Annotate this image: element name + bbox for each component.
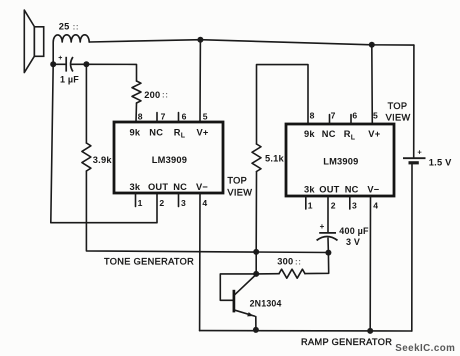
- wire pin4 U1 to ground rail: [199, 193, 201, 331]
- node B mid rail C2: [325, 250, 331, 256]
- svg-text:LM3909: LM3909: [323, 157, 358, 167]
- node emitter ground rail: [253, 327, 259, 333]
- node junction C1 R1 R2: [83, 61, 89, 67]
- capacitor C2 400uF: [317, 222, 338, 241]
- node top rail pin5 U1: [197, 37, 203, 43]
- wire speaker line to pin2 U1: [51, 64, 157, 222]
- svg-text:3k: 3k: [304, 185, 315, 195]
- IC U1 LM3909: [114, 111, 223, 208]
- svg-text:RL: RL: [174, 128, 186, 140]
- transistor Q1 2N1304: [234, 274, 256, 316]
- svg-text:400 µF: 400 µF: [339, 226, 369, 236]
- resistor R2: [82, 143, 91, 171]
- capacitor C1 1uF: [53, 55, 86, 72]
- svg-text:V+: V+: [197, 128, 209, 138]
- svg-text:9k: 9k: [130, 128, 141, 138]
- svg-text:V−: V−: [196, 182, 208, 192]
- node pin4 U2 ground rail: [367, 328, 373, 334]
- svg-text:SeekIC.com: SeekIC.com: [395, 343, 455, 354]
- svg-text:7: 7: [331, 111, 336, 121]
- wire R3 bottom to node A: [255, 172, 257, 252]
- svg-text:8: 8: [138, 111, 143, 121]
- node top rail pin5 U2: [369, 42, 375, 48]
- IC U2 LM3909: [286, 111, 394, 211]
- svg-text:1 µF: 1 µF: [60, 74, 79, 84]
- label TOP VIEW U2: [386, 101, 411, 123]
- svg-text:OUT: OUT: [148, 182, 168, 192]
- svg-text:VIEW: VIEW: [227, 188, 252, 198]
- svg-text:5: 5: [373, 111, 378, 121]
- svg-text:+: +: [417, 147, 422, 156]
- wire R1 to pin8 U1: [135, 103, 138, 122]
- wire R3 top to pin8 U2: [257, 65, 309, 144]
- wire pin2 U2 to C2: [327, 196, 329, 233]
- svg-text:5: 5: [203, 111, 208, 121]
- svg-text:::: ::: [295, 257, 302, 266]
- svg-text:+: +: [58, 55, 62, 62]
- svg-text:3: 3: [181, 198, 186, 208]
- svg-text:::: ::: [162, 91, 169, 100]
- svg-text:3k: 3k: [130, 182, 141, 192]
- svg-text:1.5 V: 1.5 V: [429, 158, 452, 168]
- label R1 value 200 ohms: [144, 90, 168, 100]
- wire node T to base Q1: [220, 274, 256, 300]
- node A mid rail R3: [253, 249, 259, 255]
- label C2 value 400 uF 3 V: [339, 226, 369, 247]
- svg-text:6: 6: [182, 111, 187, 121]
- svg-text:4: 4: [202, 198, 207, 208]
- svg-text:25: 25: [59, 22, 70, 32]
- svg-text:2N1304: 2N1304: [250, 298, 282, 308]
- svg-text:NC: NC: [345, 185, 359, 195]
- battery BT1 1.5V: [403, 147, 426, 162]
- wire R4 to node T: [256, 273, 279, 275]
- svg-text:NC: NC: [322, 129, 336, 139]
- svg-text:2: 2: [331, 200, 336, 210]
- wire pin4 U2 to ground rail: [369, 196, 371, 331]
- label TOP VIEW U1: [227, 175, 252, 197]
- node junction L1 C1 speaker line: [50, 61, 56, 67]
- svg-text:200: 200: [144, 90, 160, 100]
- wire top rail: [89, 40, 414, 45]
- svg-text:5.1k: 5.1k: [265, 154, 285, 164]
- svg-text:TOP: TOP: [388, 101, 408, 111]
- svg-text:1: 1: [308, 200, 313, 210]
- wire emitter Q1 to ground rail: [255, 317, 257, 330]
- wire C2 to node B: [327, 238, 329, 252]
- svg-text:3 V: 3 V: [346, 237, 360, 247]
- resistor R4: [279, 269, 305, 278]
- svg-text:NC: NC: [149, 128, 163, 138]
- wire pin5 U2 to top rail: [371, 45, 374, 124]
- svg-text:+: +: [320, 222, 325, 231]
- wire node A to node T: [255, 252, 257, 274]
- wire ground rail: [200, 330, 412, 332]
- svg-text:OUT: OUT: [319, 185, 339, 195]
- svg-text:1: 1: [138, 198, 143, 208]
- svg-text:V−: V−: [367, 185, 379, 195]
- svg-text:NC: NC: [173, 182, 187, 192]
- svg-text:RAMP GENERATOR: RAMP GENERATOR: [301, 337, 392, 347]
- wire R2 to mid rail: [86, 171, 328, 253]
- svg-text:::: ::: [73, 22, 80, 31]
- svg-text:RL: RL: [344, 129, 356, 141]
- svg-text:8: 8: [310, 111, 315, 121]
- wire node B to R4: [305, 253, 329, 274]
- resistor R1: [132, 81, 141, 103]
- svg-text:7: 7: [161, 111, 166, 121]
- resistor R3 5.1k: [252, 144, 261, 172]
- svg-text:6: 6: [352, 111, 357, 121]
- wire pin5 U1 to top rail: [199, 40, 201, 122]
- svg-text:TOP: TOP: [227, 175, 247, 185]
- svg-text:9k: 9k: [304, 129, 315, 139]
- svg-text:4: 4: [373, 200, 378, 210]
- svg-text:2: 2: [159, 198, 164, 208]
- wire C1 junction to R2: [85, 64, 87, 143]
- svg-text:3.9k: 3.9k: [93, 155, 113, 165]
- svg-text:VIEW: VIEW: [386, 113, 411, 123]
- node T collector node: [253, 271, 259, 277]
- svg-text:3: 3: [352, 200, 357, 210]
- svg-text:LM3909: LM3909: [152, 155, 187, 165]
- svg-text:V+: V+: [368, 129, 380, 139]
- speaker LS1: [24, 10, 43, 73]
- label L1 value 25 ohms: [59, 22, 79, 32]
- svg-text:TONE GENERATOR: TONE GENERATOR: [104, 257, 194, 267]
- wire battery negative lead: [411, 165, 413, 332]
- wire C1 junction to R1: [86, 64, 136, 81]
- svg-text:300: 300: [277, 257, 293, 267]
- label R4 value 300 ohms: [277, 257, 301, 267]
- inductor L1: [53, 35, 89, 65]
- wire battery positive lead: [413, 45, 415, 157]
